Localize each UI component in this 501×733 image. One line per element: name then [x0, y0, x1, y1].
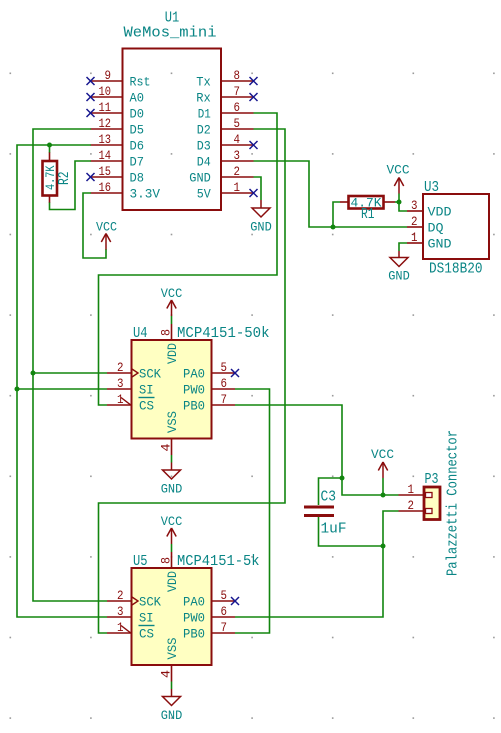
U4 pin 7 PB0 — [183, 392, 235, 414]
U1 pin 15 D8 (left, y=177) — [91, 164, 145, 186]
svg-text:9: 9 — [105, 68, 112, 83]
no-connect U5 pin 5 — [231, 597, 239, 605]
no-connect U4 pin 5 — [231, 369, 239, 377]
connector P3 Palazzetti — [424, 472, 440, 520]
power VCC (above P3) — [371, 447, 394, 478]
wire U1.GND -> GND — [254, 177, 262, 200]
svg-text:D4: D4 — [197, 155, 211, 170]
svg-text:3: 3 — [411, 198, 418, 213]
svg-text:Tx: Tx — [196, 75, 211, 90]
wire D1 net: U1.D1 -> U4.CS — [99, 113, 278, 405]
wire U4.PB0 -> P3 pin1 / VCC — [235, 405, 399, 495]
junction VCC/P3.1 — [381, 493, 386, 498]
U4 pin 5 PA0 — [183, 360, 235, 382]
svg-text:1: 1 — [234, 180, 241, 195]
U4 pin 8 VDD (top) — [159, 324, 180, 364]
svg-text:GND: GND — [250, 220, 272, 235]
wire branch -> P3 pin2 — [383, 511, 399, 546]
svg-text:VDD: VDD — [165, 343, 180, 364]
svg-text:1: 1 — [408, 482, 415, 497]
svg-text:CS: CS — [139, 627, 154, 642]
junction D5/U4.SCK — [31, 371, 36, 376]
power VCC (above U5) — [161, 514, 183, 544]
svg-text:MCP4151-50k: MCP4151-50k — [177, 326, 270, 342]
svg-text:2: 2 — [117, 588, 124, 603]
svg-text:PW0: PW0 — [183, 383, 205, 398]
U5 pin 8 VDD (top) — [159, 552, 180, 592]
U5 pin 5 PA0 — [183, 588, 235, 610]
U5 pin 4 VSS (bottom) — [159, 638, 180, 682]
svg-text:GND: GND — [189, 171, 211, 186]
svg-text:16: 16 — [99, 180, 112, 195]
svg-text:Rst: Rst — [130, 75, 151, 90]
svg-text:4: 4 — [159, 444, 174, 452]
svg-text:MCP4151-5k: MCP4151-5k — [177, 554, 260, 570]
svg-text:SI: SI — [139, 383, 154, 398]
svg-text:1uF: 1uF — [321, 522, 347, 538]
svg-text:U5: U5 — [133, 554, 148, 570]
wire VCC -> U4.VDD — [171, 316, 173, 324]
svg-text:VDD: VDD — [165, 571, 180, 592]
wire U4.VSS -> GND — [171, 455, 173, 463]
wire branch DQ -> R1 left — [333, 202, 340, 227]
svg-text:2: 2 — [408, 498, 415, 513]
wire VCC -> P3 pin1 — [382, 478, 384, 495]
svg-text:U3: U3 — [424, 180, 439, 196]
svg-text:7: 7 — [221, 620, 228, 635]
svg-text:GND: GND — [161, 708, 183, 723]
junction U4.PB0/C3 — [340, 476, 345, 481]
svg-text:8: 8 — [234, 68, 241, 83]
U1 pin 13 D6 (left, y=145) — [91, 132, 145, 154]
U4 pin 3 SI — [107, 376, 154, 398]
svg-text:11: 11 — [99, 100, 112, 115]
U4 pin 1 CS — [107, 392, 155, 414]
svg-text:13: 13 — [99, 132, 112, 147]
junction D6/U4.SI — [15, 387, 20, 392]
U1 pin 12 D5 (left, y=129) — [91, 116, 145, 138]
svg-text:R1: R1 — [361, 207, 375, 223]
wire U1.3V3 -> VCC — [83, 193, 106, 258]
svg-text:PB0: PB0 — [183, 399, 205, 414]
svg-text:SI: SI — [139, 611, 154, 626]
wire U3.GND -> GND — [399, 243, 407, 251]
svg-text:1: 1 — [411, 230, 418, 245]
U4 pin 4 VSS (bottom) — [159, 411, 180, 455]
no-connect U1 pin 4 — [250, 141, 258, 149]
U1 pin 7 Rx (right, y=97) — [196, 84, 253, 106]
resistor R1 4.7K (horizontal) — [340, 196, 395, 224]
svg-text:VSS: VSS — [165, 638, 180, 660]
svg-text:D0: D0 — [130, 107, 145, 122]
svg-text:C3: C3 — [321, 490, 337, 506]
no-connect U1 pin 15 — [87, 173, 95, 181]
no-connect U1 pin 9 — [87, 77, 95, 85]
svg-text:3: 3 — [117, 376, 124, 391]
U3 pin 3 VDD — [407, 198, 452, 220]
svg-text:4: 4 — [159, 670, 174, 678]
svg-text:10: 10 — [99, 84, 112, 99]
svg-text:D8: D8 — [130, 171, 145, 186]
wire branch D6 -> U4.SI — [17, 388, 107, 390]
U5 pin 2 SCK — [107, 588, 161, 610]
wire branch -> U5.PW0 — [235, 546, 383, 617]
svg-text:8: 8 — [159, 557, 174, 564]
U5 pin 1 CS — [107, 620, 155, 642]
svg-text:SCK: SCK — [139, 595, 161, 610]
svg-text:5: 5 — [221, 588, 228, 603]
ground GND (below U5) — [161, 689, 183, 723]
svg-text:U1: U1 — [165, 11, 180, 27]
U1 pin 14 D7 (left, y=161) — [91, 148, 145, 170]
svg-text:D5: D5 — [130, 123, 145, 138]
svg-text:5V: 5V — [197, 187, 211, 202]
power VCC (above R1) — [387, 163, 410, 194]
svg-text:7: 7 — [221, 392, 228, 407]
svg-text:U4: U4 — [133, 326, 148, 342]
U1 pin 1 5V (right, y=193) — [197, 180, 254, 202]
wire U4.PW0 -> U5.PB0 — [235, 389, 270, 633]
svg-text:2: 2 — [234, 164, 241, 179]
power VCC (near U1) — [96, 220, 117, 250]
U1 pin 5 D2 (right, y=129) — [197, 116, 254, 138]
svg-text:PA0: PA0 — [183, 367, 205, 382]
U5 pin 6 PW0 — [183, 604, 235, 626]
svg-text:3: 3 — [234, 148, 241, 163]
wire D2 net: U1.D2 -> U5.CS — [99, 129, 286, 633]
svg-text:PW0: PW0 — [183, 611, 205, 626]
U3 pin 2 DQ — [407, 214, 444, 236]
IC U4 MCP4151-50k — [132, 326, 270, 439]
svg-text:VDD: VDD — [428, 205, 452, 220]
wire VCC -> U5.VDD — [171, 544, 173, 552]
U1 pin 10 A0 (left, y=97) — [91, 84, 145, 106]
ground GND (below U3) — [388, 251, 410, 284]
power VCC (above U4) — [161, 286, 183, 316]
svg-text:3.3V: 3.3V — [130, 187, 161, 202]
U1 pin 9 Rst (left, y=81) — [91, 68, 151, 90]
U4 pin 2 SCK — [107, 360, 161, 382]
svg-text:VCC: VCC — [161, 286, 183, 301]
IC U5 MCP4151-5k — [132, 554, 260, 665]
svg-text:6: 6 — [234, 100, 241, 115]
wire D6 net: U1.D6 -> R2 top / U4.SI / U5.SI — [17, 145, 107, 617]
wire R2 bottom -> U1.D7 — [50, 161, 92, 210]
svg-text:P3: P3 — [425, 472, 439, 488]
U1 pin 3 D4 (right, y=161) — [197, 148, 254, 170]
svg-text:12: 12 — [99, 116, 112, 131]
U1 pin 6 D1 (right, y=113) — [198, 100, 254, 122]
no-connect U1 pin 1 — [250, 189, 258, 197]
svg-text:7: 7 — [234, 84, 241, 99]
svg-text:5: 5 — [221, 360, 228, 375]
wire D4 net: U1.D4 -> U3.DQ / R1 — [254, 161, 408, 227]
wire junction -> U3.VDD — [399, 202, 407, 211]
svg-text:D3: D3 — [197, 139, 211, 154]
wire D5 net: U1.D5 -> U4.SCK / U5.SCK — [33, 129, 107, 601]
U4 pin 6 PW0 — [183, 376, 235, 398]
junction D6/R2 — [47, 143, 52, 148]
no-connect U1 pin 11 — [87, 109, 95, 117]
svg-text:4: 4 — [234, 132, 241, 147]
U1 pin 2 GND (right, y=177) — [189, 164, 253, 186]
junction VCC/R1/U3.VDD — [397, 200, 402, 205]
svg-text:Rx: Rx — [196, 91, 211, 106]
svg-text:15: 15 — [99, 164, 112, 179]
svg-text:VCC: VCC — [96, 220, 117, 235]
ground GND (below U4) — [161, 463, 183, 497]
U1 pin 4 D3 (right, y=145) — [197, 132, 254, 154]
svg-text:D7: D7 — [130, 155, 145, 170]
no-connect U1 pin 10 — [87, 93, 95, 101]
svg-text:VCC: VCC — [387, 163, 410, 178]
svg-text:6: 6 — [221, 604, 228, 619]
U5 pin 7 PB0 — [183, 620, 235, 642]
svg-text:5: 5 — [234, 116, 241, 131]
no-connect U1 pin 7 — [250, 93, 258, 101]
svg-text:D2: D2 — [197, 123, 211, 138]
U1 pin 16 3.3V (left, y=193) — [91, 180, 161, 202]
svg-text:CS: CS — [139, 399, 154, 414]
wire branch -> C3 top — [319, 478, 343, 505]
junction DQ/R1 — [331, 225, 336, 230]
wire VCC -> junction — [398, 194, 400, 203]
svg-text:R2: R2 — [57, 172, 73, 186]
svg-text:SCK: SCK — [139, 367, 161, 382]
U1 pin 11 D0 (left, y=113) — [91, 100, 145, 122]
svg-text:VSS: VSS — [165, 411, 180, 433]
svg-text:A0: A0 — [130, 91, 145, 106]
svg-text:GND: GND — [428, 237, 452, 252]
svg-text:2: 2 — [117, 360, 124, 375]
no-connect U1 pin 8 — [250, 77, 258, 85]
svg-text:3: 3 — [117, 604, 124, 619]
U3 pin 1 GND — [407, 230, 452, 252]
svg-text:PB0: PB0 — [183, 627, 205, 642]
wire U5.VSS -> GND — [171, 682, 173, 690]
svg-text:VCC: VCC — [161, 514, 183, 529]
wire branch D5 -> U4.SCK — [33, 372, 107, 374]
svg-text:GND: GND — [388, 269, 410, 284]
IC U3 DS18B20 — [423, 180, 489, 278]
U5 pin 3 SI — [107, 604, 154, 626]
junction C3/P3.2/U5.PW0 — [381, 544, 386, 549]
resistor R2 4.7K (vertical) — [43, 152, 73, 203]
svg-text:DQ: DQ — [428, 221, 444, 236]
svg-text:PA0: PA0 — [183, 595, 205, 610]
svg-text:14: 14 — [99, 148, 112, 163]
svg-text:GND: GND — [161, 482, 183, 497]
svg-text:WeMos_mini: WeMos_mini — [124, 26, 217, 42]
P3 pin 1 — [399, 482, 433, 498]
svg-text:2: 2 — [411, 214, 418, 229]
IC U1 WeMos_mini — [123, 11, 222, 211]
wire C3 bottom -> P3 pin2 / U5.PW0 — [319, 517, 384, 546]
svg-text:D6: D6 — [130, 139, 145, 154]
wire R2 top to D6 — [49, 145, 51, 153]
ground GND (below U1 right) — [250, 200, 272, 235]
svg-text:Palazzetti Connector: Palazzetti Connector — [446, 430, 462, 576]
U1 pin 8 Tx (right, y=81) — [196, 68, 253, 90]
svg-text:DS18B20: DS18B20 — [429, 262, 483, 278]
svg-text:8: 8 — [159, 329, 174, 336]
wire R1 right -> VCC junction — [395, 201, 399, 203]
capacitor C3 1uF — [304, 490, 347, 538]
svg-text:VCC: VCC — [371, 447, 394, 462]
svg-text:6: 6 — [221, 376, 228, 391]
svg-text:D1: D1 — [198, 107, 211, 122]
P3 pin 2 — [399, 498, 433, 514]
